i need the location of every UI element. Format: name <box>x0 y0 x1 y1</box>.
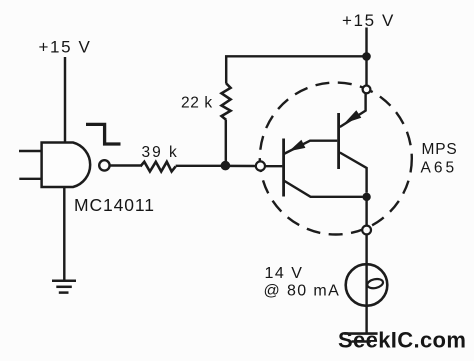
svg-text:39 k: 39 k <box>142 144 179 161</box>
transistor Q2 base bar <box>337 113 340 169</box>
wire collectors to output terminal <box>365 201 367 226</box>
lamp filament loop <box>366 278 383 290</box>
wire R1 to node <box>176 165 221 167</box>
lamp DS1 body <box>346 264 388 306</box>
Q1 emitter to Q2 base <box>285 141 338 154</box>
wire node up to R2 <box>225 120 227 166</box>
transistor Q1 base bar <box>282 139 285 197</box>
emitter terminal circle (top) <box>363 86 371 94</box>
Q2 emitter arrow (PNP) <box>344 110 361 123</box>
Q2 emitter <box>340 93 366 127</box>
ground under lamp bar 2 <box>352 340 372 342</box>
junction node dot <box>221 161 231 171</box>
base terminal circle (left) <box>256 161 265 170</box>
NAND input pin 2 <box>19 178 41 180</box>
svg-text:MPS: MPS <box>422 141 458 158</box>
NAND input pin 1 <box>19 150 42 152</box>
ground <box>52 281 76 293</box>
Q1 emitter arrow (PNP) <box>289 140 306 151</box>
wire R2 to +15V rail <box>226 56 366 83</box>
Q2 collector <box>340 153 367 193</box>
junction dot on +15V rail <box>362 52 371 61</box>
wire output terminal to lamp <box>365 234 367 333</box>
Q1 base wire <box>265 165 282 167</box>
svg-text:SeekIC.com: SeekIC.com <box>338 328 466 353</box>
wire +15V down to emitter terminal <box>365 28 367 87</box>
wire NAND output to R1 <box>109 164 140 166</box>
svg-text:22 k: 22 k <box>181 95 213 112</box>
wire +15V to NAND gate VDD <box>64 57 66 143</box>
svg-text:MC14011: MC14011 <box>74 195 155 215</box>
svg-text:+15 V: +15 V <box>342 11 395 30</box>
wire NAND gate VSS to ground <box>63 187 65 281</box>
wire node to transistor base terminal <box>225 165 256 168</box>
collector terminal circle (bottom) <box>362 226 371 235</box>
NAND output bubble <box>99 160 109 170</box>
resistor R2 22 k <box>222 83 231 120</box>
package boundary dashed circle MPS A65 <box>260 83 412 235</box>
junction dot collectors <box>362 193 370 201</box>
svg-text:14 V: 14 V <box>265 265 304 282</box>
svg-text:+15 V: +15 V <box>39 38 92 57</box>
ground under lamp bar 1 <box>344 332 377 335</box>
falling-edge pulse waveform <box>86 124 121 144</box>
resistor R1 39 k <box>140 162 175 172</box>
Q1 collector <box>285 181 363 197</box>
NAND gate U1 MC14011 body <box>42 143 91 188</box>
svg-text:@ 80 mA: @ 80 mA <box>264 283 341 300</box>
svg-text:A65: A65 <box>421 160 458 177</box>
